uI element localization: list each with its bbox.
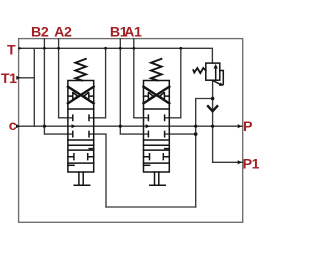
node stub-drain: [194, 132, 198, 136]
section line V1: [68, 139, 94, 141]
check triangle right V2: [160, 93, 164, 99]
section line V1: [68, 149, 94, 151]
arrow T: [19, 47, 22, 50]
wire relief drain: [196, 99, 213, 208]
node B1-c: [119, 125, 122, 128]
port stub bottom pair V2: [148, 131, 164, 136]
svg-text:T1: T1: [1, 71, 17, 87]
port arrows: [16, 47, 242, 165]
wire c/P carryover line: [19, 125, 243, 127]
notch left V1: [68, 164, 74, 166]
node A2-T: [57, 47, 60, 50]
compensator box V2 divider: [144, 108, 170, 110]
svg-text:B2: B2: [31, 24, 49, 40]
relief valve RV: [193, 63, 223, 84]
relief internal arrowhead: [214, 64, 218, 69]
svg-text:P1: P1: [243, 157, 259, 173]
wire valve1 top-right to T: [89, 48, 106, 118]
node V2R-T: [179, 47, 182, 50]
check bar right V2: [164, 93, 169, 100]
section line V2: [144, 162, 170, 164]
wire B2: [44, 39, 72, 134]
section line V2: [144, 144, 170, 146]
valve V2 body: [144, 81, 170, 173]
arrow flow V2: [146, 124, 150, 128]
check triangle left V2: [149, 93, 153, 99]
svg-text:A1: A1: [124, 24, 142, 40]
check bar right V1: [89, 93, 94, 100]
junction dots: [43, 47, 215, 136]
wire T-line: [19, 48, 213, 63]
port stub top pair V2: [148, 115, 164, 120]
spring V1: [75, 59, 86, 81]
check valve chevron: [207, 105, 218, 111]
check bar left V2: [144, 93, 149, 100]
wire valve2 top-right to T: [165, 48, 181, 118]
check triangle left V1: [74, 93, 78, 99]
wire A1: [134, 39, 149, 118]
mid stub pair V1: [68, 154, 94, 160]
node drain-P: [194, 125, 197, 128]
check triangle right V1: [84, 93, 88, 99]
notch right V2: [165, 148, 170, 150]
relief spring: [193, 68, 206, 73]
section line V2: [144, 149, 170, 151]
spring V2: [151, 59, 162, 81]
section line V1: [68, 144, 94, 146]
arrow P1: [238, 160, 242, 164]
wire T-rail: [33, 48, 35, 126]
node A1-T: [132, 47, 135, 50]
valve V1 body: [68, 81, 94, 173]
notch right V1: [89, 148, 94, 150]
X crossed arrows V1: [68, 87, 94, 104]
compensator box V1 divider: [68, 108, 94, 110]
svg-text:T: T: [7, 42, 16, 58]
svg-text:A2: A2: [54, 24, 72, 40]
wire valve2 bottom-right: [165, 133, 196, 135]
node relief-drain: [211, 97, 215, 101]
port stub bottom pair V1: [73, 131, 89, 136]
relief pilot bracket: [213, 71, 224, 85]
wire A2: [59, 39, 73, 118]
wire T1: [19, 77, 35, 79]
arrow T1: [16, 76, 20, 80]
svg-text:c: c: [9, 118, 17, 134]
relief pilot arrowhead: [219, 82, 224, 86]
node B2-T: [43, 47, 46, 50]
arrow P: [238, 124, 242, 128]
spool tail V2: [150, 172, 166, 185]
wire relief to P: [212, 80, 214, 126]
section line V2: [144, 139, 170, 141]
wire valve1 bottom-right down: [89, 134, 106, 207]
arrow c: [16, 124, 20, 128]
mid stub pair V2: [144, 154, 170, 160]
wire P1 branch: [213, 126, 243, 162]
spool tail V1: [74, 172, 90, 185]
check bar left V1: [68, 93, 73, 100]
port stub top pair V1: [73, 115, 89, 120]
X crossed arrows V2: [144, 87, 170, 104]
notch left V2: [144, 164, 150, 166]
node B2-c: [43, 125, 46, 128]
node check-P: [211, 125, 214, 128]
relief valve box: [206, 63, 220, 80]
relief internal arrow line: [215, 67, 217, 80]
svg-text:P: P: [243, 119, 252, 135]
valve V2 assembly: [144, 59, 170, 185]
wire B1: [120, 39, 148, 134]
node B1-T: [119, 47, 122, 50]
valve V1 assembly: [68, 59, 94, 185]
section line V1: [68, 162, 94, 164]
wire bottom return: [106, 206, 196, 208]
arrow flow V1: [72, 124, 76, 128]
node V1R-T: [104, 47, 107, 50]
